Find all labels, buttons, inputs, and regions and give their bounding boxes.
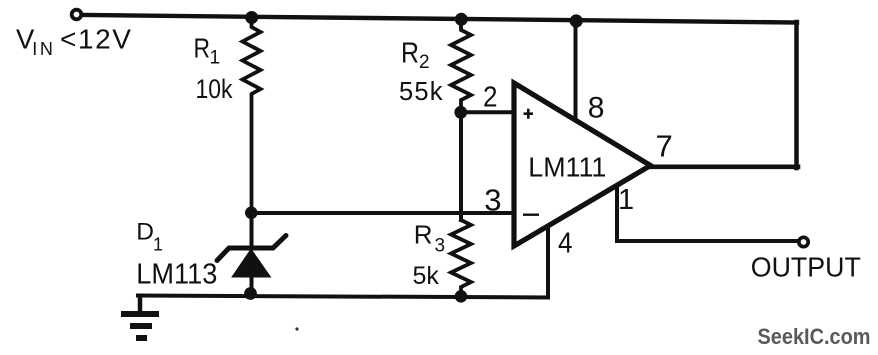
output terminal: [799, 237, 808, 246]
svg-text:10k: 10k: [196, 74, 233, 104]
diode D1 anode triangle: [233, 250, 270, 277]
wire right feedback vertical: [794, 22, 799, 168]
wire pin 2: [461, 110, 512, 114]
svg-text:2: 2: [483, 82, 498, 114]
wire pin 3: [252, 211, 513, 215]
diode D1 zener cathode bar: [217, 236, 286, 261]
svg-text:1: 1: [618, 184, 634, 216]
ground: [138, 296, 143, 311]
node pin8 top: [570, 14, 583, 27]
svg-text:8: 8: [588, 92, 605, 125]
svg-text:LM113: LM113: [136, 259, 217, 291]
svg-text:R: R: [194, 33, 211, 64]
diode D1 wire top: [250, 213, 254, 247]
svg-text:7: 7: [656, 128, 673, 163]
svg-text:IN: IN: [32, 39, 55, 59]
op-amp U1 LM111 triangle: [514, 83, 651, 246]
junction node dots: [244, 11, 583, 303]
svg-text:1: 1: [210, 48, 221, 69]
svg-text:55k: 55k: [399, 78, 444, 106]
ground bars: [121, 314, 159, 338]
svg-text:<12V: <12V: [60, 24, 133, 55]
node R3 bottom: [455, 290, 468, 303]
wire top rail: [84, 15, 797, 23]
op-amp plus input mark: [524, 109, 533, 119]
node pin2 divider tap: [454, 106, 467, 119]
wire pin 7 output to rail: [650, 165, 798, 170]
node R1 top: [245, 11, 258, 24]
svg-text:3: 3: [484, 183, 501, 218]
op-amp minus input mark: [523, 213, 539, 215]
svg-text:4: 4: [558, 228, 573, 260]
wire bottom rail: [138, 296, 548, 298]
diode D1 wire bottom: [250, 276, 254, 296]
resistor R3: [451, 220, 471, 296]
svg-text:5k: 5k: [413, 262, 440, 290]
ink speck: [295, 327, 298, 330]
wire R2 bottom down through pin3 crossing: [459, 112, 463, 220]
svg-text:D: D: [136, 219, 154, 246]
node D1 bottom: [244, 287, 257, 300]
resistor R2: [451, 19, 471, 110]
svg-text:OUTPUT: OUTPUT: [751, 252, 861, 283]
svg-text:2: 2: [419, 52, 430, 73]
svg-text:3: 3: [435, 236, 446, 257]
svg-text:1: 1: [153, 235, 163, 255]
svg-text:R: R: [401, 37, 419, 69]
wire pin 4: [546, 226, 550, 296]
svg-text:SeekIC.com: SeekIC.com: [758, 324, 871, 349]
svg-text:R: R: [414, 220, 433, 250]
wire pin 8: [574, 20, 578, 121]
node R2 top: [455, 13, 468, 26]
svg-text:LM111: LM111: [528, 152, 606, 183]
resistor R1: [243, 16, 261, 213]
node R1/D1/pin3: [245, 207, 258, 220]
wire pin 1 to output: [617, 184, 797, 241]
input terminal: [72, 10, 82, 20]
